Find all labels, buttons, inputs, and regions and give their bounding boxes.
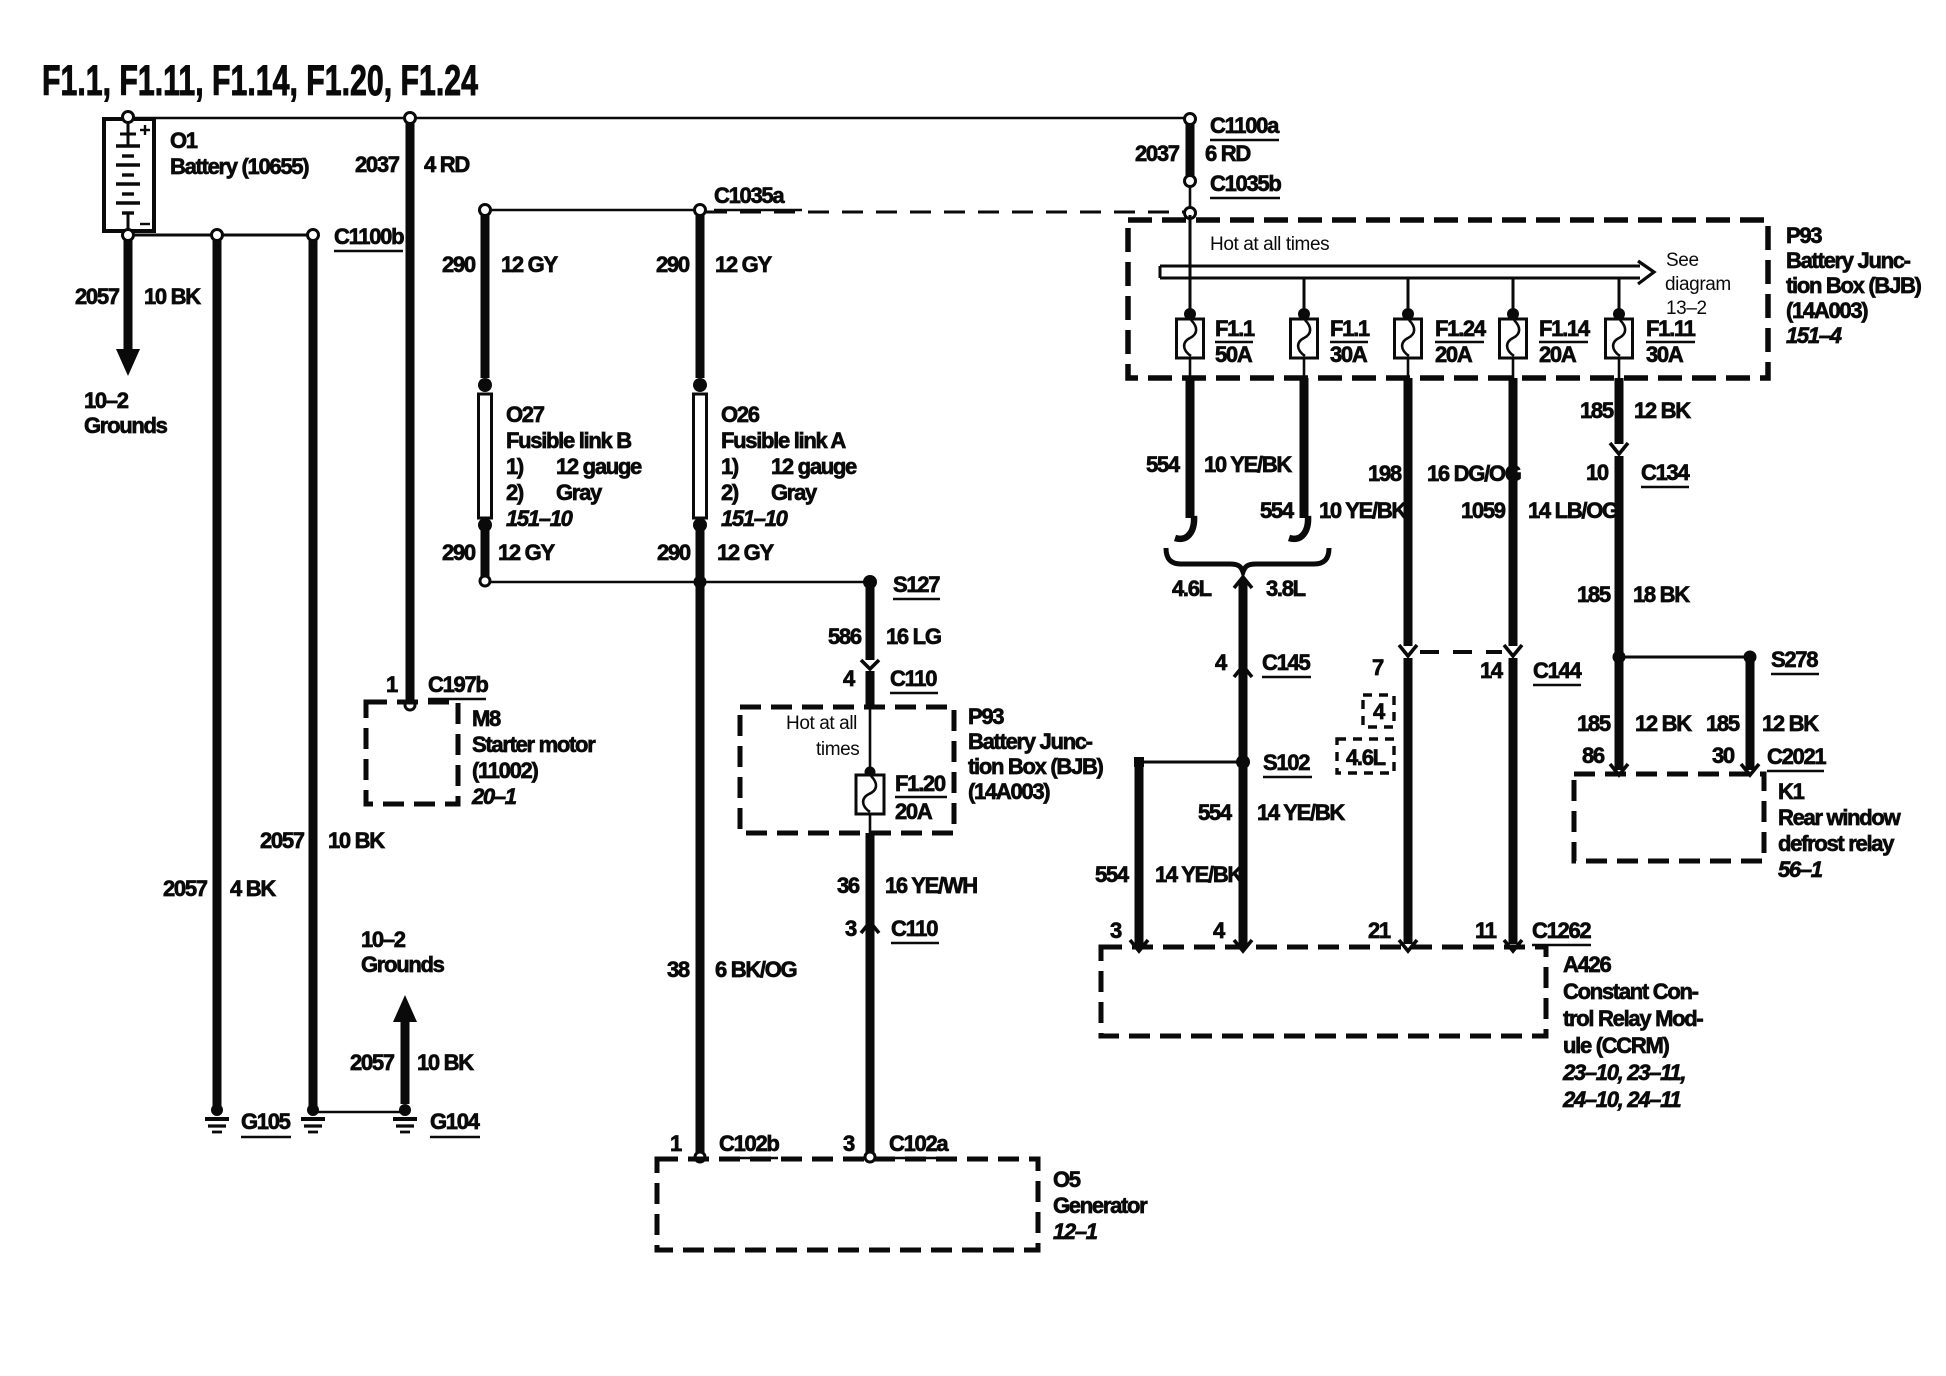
svg-text:trol Relay Mod-: trol Relay Mod-: [1563, 1006, 1703, 1031]
splice S278: [1613, 647, 1820, 674]
bus drop to F1.14: [1512, 277, 1515, 313]
svg-text:290: 290: [656, 252, 690, 277]
svg-text:tion Box (BJB): tion Box (BJB): [1786, 273, 1922, 298]
wire 290 12 GY lower B: [442, 530, 555, 577]
svg-text:6 BK/OG: 6 BK/OG: [715, 957, 797, 982]
svg-text:F1.11: F1.11: [1646, 316, 1696, 341]
wire 2037 6 RD: [1135, 122, 1250, 178]
svg-text:23–10, 23–11,: 23–10, 23–11,: [1562, 1060, 1685, 1085]
svg-text:20A: 20A: [895, 799, 933, 824]
wire 2057 4 BK to G105: [163, 237, 276, 1106]
svg-text:Gray: Gray: [771, 480, 818, 505]
splice S102: [1134, 750, 1312, 777]
svg-text:11: 11: [1475, 918, 1497, 943]
label A426 CCRM: [1562, 952, 1703, 1112]
svg-text:14 YE/BK: 14 YE/BK: [1155, 862, 1243, 887]
svg-text:12 GY: 12 GY: [498, 540, 555, 565]
svg-text:C102a: C102a: [889, 1131, 949, 1156]
svg-text:1059: 1059: [1461, 498, 1506, 523]
label M8 Starter motor: [471, 706, 596, 809]
svg-text:2037: 2037: [355, 152, 400, 177]
starter motor M8 box: [366, 702, 458, 804]
wire ground arrow 2057 10 BK: [75, 239, 201, 438]
wire 185 12 BK from F1.11: [1580, 378, 1691, 454]
svg-text:151–10: 151–10: [506, 506, 574, 531]
svg-text:1: 1: [670, 1131, 682, 1156]
fuse F1.1 30A: [1291, 308, 1370, 378]
label C1100b: [334, 224, 404, 251]
svg-text:586: 586: [828, 624, 862, 649]
svg-text:38: 38: [667, 957, 690, 982]
node C1035b: [1185, 171, 1282, 198]
wire 198 16 DG/OG from F1.24: [1368, 378, 1521, 656]
svg-text:C144: C144: [1533, 658, 1582, 683]
fuse F1.11 30A: [1606, 308, 1696, 378]
svg-text:K1: K1: [1778, 779, 1805, 804]
svg-text:Grounds: Grounds: [361, 952, 445, 977]
svg-text:See: See: [1666, 250, 1699, 271]
svg-text:Battery (10655): Battery (10655): [170, 154, 309, 179]
wire F1.24 to CCRM 21: [1404, 658, 1413, 944]
svg-text:tion Box (BJB): tion Box (BJB): [968, 754, 1104, 779]
svg-text:14 LB/OG: 14 LB/OG: [1528, 498, 1618, 523]
fusible link A O26: [693, 378, 707, 532]
brace 4.6L 3.8L: [1166, 548, 1329, 601]
svg-text:16 YE/WH: 16 YE/WH: [885, 873, 977, 898]
svg-text:16 DG/OG: 16 DG/OG: [1427, 461, 1521, 486]
svg-text:Battery Junc-: Battery Junc-: [1786, 248, 1911, 273]
svg-text:554: 554: [1095, 862, 1130, 887]
svg-text:C134: C134: [1641, 460, 1690, 485]
svg-text:S127: S127: [893, 572, 940, 597]
svg-text:10 YE/BK: 10 YE/BK: [1204, 452, 1292, 477]
node battery negative: [123, 230, 134, 241]
CCRM box A426: [1101, 947, 1546, 1036]
splice S127: [863, 572, 940, 599]
svg-text:10: 10: [1586, 460, 1609, 485]
wire 290 12 GY upper B: [442, 212, 558, 378]
svg-text:2057: 2057: [350, 1050, 395, 1075]
svg-text:G104: G104: [430, 1109, 481, 1134]
svg-text:12 GY: 12 GY: [715, 252, 772, 277]
svg-text:Starter motor: Starter motor: [472, 732, 596, 757]
svg-text:C1262: C1262: [1532, 918, 1591, 943]
svg-text:1): 1): [721, 454, 739, 479]
title F1.1, F1.11, F1.14, F1.20, F1.24: [42, 57, 478, 105]
svg-text:F1.20: F1.20: [895, 771, 946, 796]
svg-text:(14A003): (14A003): [968, 779, 1050, 804]
svg-text:F1.1, F1.11, F1.14, F1.20, F1.: F1.1, F1.11, F1.14, F1.20, F1.24: [42, 57, 478, 105]
wire into BJB F1.20: [866, 671, 875, 772]
svg-text:12 gauge: 12 gauge: [771, 454, 857, 479]
node C1100b branch 1: [212, 230, 223, 241]
svg-text:12 BK: 12 BK: [1762, 711, 1819, 736]
svg-text:30A: 30A: [1646, 342, 1684, 367]
svg-text:diagram: diagram: [1665, 274, 1731, 295]
svg-text:20–1: 20–1: [471, 784, 517, 809]
svg-text:F1.1: F1.1: [1215, 316, 1255, 341]
svg-text:151–4: 151–4: [1786, 323, 1842, 348]
svg-text:3: 3: [1110, 918, 1122, 943]
wire dashed C1035a to C1035b: [706, 211, 1186, 214]
svg-text:12–1: 12–1: [1053, 1219, 1098, 1244]
svg-text:ule (CCRM): ule (CCRM): [1563, 1033, 1670, 1058]
generator O5 box: [657, 1159, 1038, 1250]
svg-text:(14A003): (14A003): [1786, 298, 1868, 323]
bus arrow see diagram 13-2: [1160, 250, 1731, 319]
label O5 Generator: [1053, 1167, 1148, 1244]
connector C110 pin 3: [845, 916, 939, 943]
svg-text:14: 14: [1480, 658, 1504, 683]
svg-text:12 GY: 12 GY: [501, 252, 558, 277]
CCRM pin arrows: [1130, 940, 1522, 951]
wire ground tie: [313, 1111, 405, 1114]
wire C1035b down: [1189, 186, 1192, 210]
svg-text:50A: 50A: [1215, 342, 1253, 367]
label 3 C102a: [843, 1131, 949, 1158]
junction dot on link A wire: [694, 576, 707, 589]
svg-text:S278: S278: [1771, 647, 1818, 672]
svg-text:F1.24: F1.24: [1435, 316, 1487, 341]
fuse F1.14 20A: [1500, 308, 1591, 378]
svg-text:24–10, 24–11: 24–10, 24–11: [1562, 1087, 1681, 1112]
svg-text:C197b: C197b: [428, 672, 488, 697]
wire C1035a link: [485, 209, 700, 212]
label 86 30 C2021: [1582, 743, 1826, 771]
svg-text:198: 198: [1368, 461, 1402, 486]
label C1035a: [714, 183, 802, 210]
svg-text:Hot at all times: Hot at all times: [1210, 234, 1329, 255]
svg-text:Grounds: Grounds: [84, 413, 168, 438]
svg-text:O1: O1: [170, 128, 198, 153]
node C1035a: [695, 205, 706, 216]
node link B end: [480, 576, 490, 586]
svg-text:151–10: 151–10: [721, 506, 789, 531]
svg-text:C1035a: C1035a: [714, 183, 785, 208]
label 4 box: [1363, 695, 1394, 727]
label 554 14 YE/BK right: [1198, 800, 1345, 825]
svg-text:21: 21: [1368, 918, 1391, 943]
svg-text:30A: 30A: [1330, 342, 1368, 367]
svg-text:Fusible link B: Fusible link B: [506, 428, 631, 453]
wire 290 12 GY lower A / 38 6 BK OG: [657, 530, 797, 1156]
svg-text:554: 554: [1146, 452, 1181, 477]
wire 554 14 YE/BK left: [1095, 766, 1243, 946]
svg-text:12 BK: 12 BK: [1635, 711, 1692, 736]
svg-text:C145: C145: [1262, 650, 1310, 675]
svg-text:185: 185: [1580, 398, 1614, 423]
svg-text:30: 30: [1712, 743, 1735, 768]
svg-text:10 BK: 10 BK: [328, 828, 385, 853]
svg-text:290: 290: [442, 252, 476, 277]
svg-text:G105: G105: [241, 1109, 291, 1134]
svg-text:defrost relay: defrost relay: [1778, 831, 1895, 856]
label K1 Rear window defrost relay: [1778, 779, 1902, 882]
wire 554 10 YE/BK from F1.1 30A: [1260, 378, 1407, 539]
svg-text:10 BK: 10 BK: [417, 1050, 474, 1075]
node C1035a tap: [480, 205, 491, 216]
svg-text:C110: C110: [891, 916, 938, 941]
label G105: [241, 1109, 291, 1137]
fuse F1.20 20A: [856, 767, 947, 834]
svg-text:10–2: 10–2: [361, 927, 406, 952]
svg-text:4.6L: 4.6L: [1346, 745, 1386, 770]
svg-text:Gray: Gray: [556, 480, 603, 505]
svg-text:10 BK: 10 BK: [144, 284, 201, 309]
connector C110 pin 4: [843, 666, 938, 693]
node 2037 tap: [405, 113, 416, 124]
label O27 Fusible link B: [506, 402, 642, 531]
label P93 BJB main: [1786, 223, 1922, 348]
svg-text:C1035b: C1035b: [1210, 171, 1281, 196]
svg-text:2057: 2057: [260, 828, 305, 853]
svg-text:O26: O26: [721, 402, 760, 427]
svg-text:2057: 2057: [75, 284, 120, 309]
svg-text:C110: C110: [890, 666, 937, 691]
node battery positive: [123, 112, 134, 123]
battery junction box BJB main: [1128, 220, 1768, 378]
svg-text:A426: A426: [1563, 952, 1611, 977]
svg-text:2): 2): [721, 480, 739, 505]
svg-text:185: 185: [1577, 711, 1611, 736]
label 1 C102b: [670, 1131, 779, 1158]
node C1100a: [1185, 113, 1281, 140]
fuse F1.24 20A: [1395, 308, 1487, 378]
wire 185 18 BK: [1577, 456, 1690, 770]
svg-text:C102b: C102b: [719, 1131, 779, 1156]
svg-text:86: 86: [1582, 743, 1605, 768]
bus drop to F1.24: [1407, 277, 1410, 313]
svg-text:554: 554: [1198, 800, 1233, 825]
svg-text:290: 290: [657, 540, 691, 565]
svg-text:O27: O27: [506, 402, 545, 427]
svg-text:M8: M8: [472, 706, 501, 731]
wire 4 C145 to S102: [1215, 580, 1311, 946]
svg-text:56–1: 56–1: [1778, 857, 1823, 882]
label P93 BJB small: [968, 704, 1104, 804]
node BJB feed: [1185, 208, 1196, 219]
fusible link B O27: [478, 378, 492, 532]
wire top bus from battery to C1100a: [128, 117, 1190, 120]
node C102b: [695, 1152, 705, 1162]
svg-text:C2021: C2021: [1767, 744, 1826, 769]
svg-text:3: 3: [845, 916, 857, 941]
svg-text:185: 185: [1706, 711, 1740, 736]
svg-text:10–2: 10–2: [84, 388, 129, 413]
svg-text:Battery Junc-: Battery Junc-: [968, 729, 1093, 754]
wire 2057 10 BK up arrow to G104: [350, 927, 474, 1104]
svg-text:O5: O5: [1053, 1167, 1081, 1192]
svg-text:4 BK: 4 BK: [230, 876, 276, 901]
svg-text:3.8L: 3.8L: [1266, 576, 1306, 601]
svg-text:Hot at all: Hot at all: [786, 713, 857, 734]
svg-text:Generator: Generator: [1053, 1193, 1148, 1218]
svg-text:14 YE/BK: 14 YE/BK: [1257, 800, 1345, 825]
node M8 pin 1: [405, 700, 415, 710]
svg-text:6 RD: 6 RD: [1205, 141, 1250, 166]
svg-text:10 YE/BK: 10 YE/BK: [1319, 498, 1407, 523]
svg-text:Rear window: Rear window: [1778, 805, 1902, 830]
svg-text:290: 290: [442, 540, 476, 565]
svg-text:1: 1: [386, 672, 398, 697]
node C1100b branch 2: [308, 230, 319, 241]
wire 1059 14 LB/OG from F1.14: [1461, 378, 1618, 646]
bus drop to F1.1 30A: [1303, 277, 1306, 313]
label Hot at all times: [1210, 234, 1329, 255]
svg-text:3: 3: [843, 1131, 855, 1156]
wire 2037 4 RD: [355, 121, 469, 701]
label pins 3 4 21 11 C1262: [1110, 918, 1591, 945]
wire 290 12 GY upper A: [656, 214, 772, 378]
svg-text:554: 554: [1260, 498, 1295, 523]
svg-text:Fusible link A: Fusible link A: [721, 428, 846, 453]
svg-text:12 gauge: 12 gauge: [556, 454, 642, 479]
wire S127 tie line: [485, 581, 870, 584]
wire 586 16 LG: [828, 585, 941, 669]
svg-text:16 LG: 16 LG: [886, 624, 941, 649]
svg-text:20A: 20A: [1435, 342, 1473, 367]
wire 2057 10 BK to ground: [260, 237, 385, 1106]
wire 554 10 YE/BK from F1.1 50A: [1146, 378, 1292, 539]
svg-text:C1100b: C1100b: [334, 224, 404, 249]
connector C144: [1372, 645, 1582, 685]
svg-text:4.6L: 4.6L: [1172, 576, 1212, 601]
svg-text:F1.14: F1.14: [1539, 316, 1591, 341]
svg-text:12 BK: 12 BK: [1634, 398, 1691, 423]
svg-text:36: 36: [837, 873, 860, 898]
svg-text:4 RD: 4 RD: [424, 152, 469, 177]
svg-text:(11002): (11002): [472, 758, 538, 783]
svg-text:12 GY: 12 GY: [717, 540, 774, 565]
label 4.6L box: [1337, 739, 1394, 773]
wire S278 to K1 30: [1706, 660, 1819, 775]
label O26 Fusible link A: [721, 402, 857, 531]
wire battery negative bus C1100b: [128, 234, 313, 237]
svg-text:F1.1: F1.1: [1330, 316, 1370, 341]
ground G104: [393, 1104, 417, 1132]
wire 36 16 YE/WH: [837, 833, 977, 1156]
wire 185 12 BK to K1 86: [1577, 711, 1692, 775]
battery junction box BJB F1.20: [740, 707, 954, 833]
svg-text:2): 2): [506, 480, 524, 505]
svg-text:20A: 20A: [1539, 342, 1577, 367]
svg-text:C1100a: C1100a: [1210, 113, 1280, 138]
svg-text:185: 185: [1577, 582, 1611, 607]
svg-text:P93: P93: [1786, 223, 1822, 248]
svg-text:2037: 2037: [1135, 141, 1180, 166]
ground center: [301, 1104, 325, 1132]
battery O1: [104, 119, 154, 235]
wire C1035b to F1.1: [1189, 215, 1192, 313]
svg-text:1): 1): [506, 454, 524, 479]
svg-text:times: times: [816, 739, 859, 760]
ground G105: [205, 1104, 229, 1132]
fuse F1.1 50A: [1177, 308, 1255, 378]
svg-text:Constant Con-: Constant Con-: [1563, 979, 1699, 1004]
svg-text:P93: P93: [968, 704, 1004, 729]
svg-text:18 BK: 18 BK: [1633, 582, 1690, 607]
label O1 Battery: [170, 128, 309, 179]
relay K1 box: [1574, 774, 1764, 861]
bus drop to F1.11: [1618, 277, 1621, 313]
label Hot at all times: [786, 713, 859, 760]
node C102a: [865, 1152, 875, 1162]
svg-text:7: 7: [1372, 655, 1384, 680]
label 1 C197b: [386, 672, 488, 699]
svg-text:S102: S102: [1263, 750, 1310, 775]
label G104: [430, 1109, 481, 1137]
wire F1.14 to CCRM 11: [1509, 658, 1518, 944]
svg-text:2057: 2057: [163, 876, 208, 901]
connector C134: [1586, 460, 1690, 487]
